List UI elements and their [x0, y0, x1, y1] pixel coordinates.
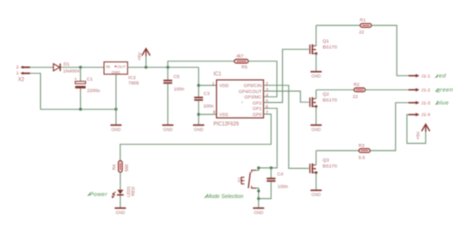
wire S1 bottom contact down: [256, 188, 258, 199]
svg-text:BS170: BS170: [323, 164, 338, 170]
capacitor C5 100n: [163, 67, 184, 124]
wire Q3 drain up to R3: [315, 151, 317, 165]
svg-text:R4: R4: [112, 164, 117, 170]
svg-text:Power: Power: [90, 192, 109, 198]
wire R4 to LED1: [119, 172, 121, 189]
svg-text:PIC12F629: PIC12F629: [214, 122, 240, 128]
wire GP2 pin5 to Q1 gate: [264, 49, 309, 102]
capacitor C3 100n: [194, 91, 214, 125]
node junction Q1 source-body: [315, 52, 318, 55]
wire R5 feed from C5 node: [168, 61, 235, 67]
node junction C4 top: [270, 166, 273, 169]
svg-text:C1: C1: [87, 77, 93, 82]
wire GP5 pin2 to Q3 gate: [264, 85, 309, 168]
svg-text:R5: R5: [242, 65, 248, 70]
svg-text:red: red: [437, 74, 447, 80]
ground symbol under C5: [162, 125, 173, 132]
svg-text:100n: 100n: [203, 104, 214, 109]
resistor R3 5.6: [316, 143, 370, 160]
LED LED1: [112, 185, 136, 197]
wire R3 to J1-3: [370, 103, 408, 151]
resistor R4 560: [112, 161, 129, 173]
transistor Q2 BS170: [310, 91, 337, 107]
svg-text:2200u: 2200u: [87, 88, 100, 93]
ground symbol under C3: [193, 125, 204, 132]
svg-text:J1-3: J1-3: [421, 100, 430, 105]
svg-text:GP4/COUT: GP4/COUT: [239, 89, 262, 94]
wire Q2 drain up to R2: [315, 90, 317, 99]
node junction VDD branch: [197, 84, 200, 87]
ground symbol under Q2: [311, 125, 322, 132]
svg-text:J1-4: J1-4: [421, 112, 430, 117]
svg-text:C3: C3: [204, 91, 210, 96]
wire Q1 source to gnd: [315, 54, 317, 71]
ground symbol under S1: [253, 208, 264, 215]
node junction Q3 source-body: [315, 171, 318, 174]
svg-text:IN: IN: [106, 64, 110, 69]
svg-text:BS170: BS170: [323, 45, 338, 51]
connector X2 pin 1: [16, 71, 30, 76]
wire bottom rail to C4: [259, 182, 272, 199]
wire Q2 source to gnd: [315, 106, 317, 124]
svg-text:100n: 100n: [174, 87, 185, 92]
svg-text:blue: blue: [437, 101, 450, 107]
svg-text:C4: C4: [277, 171, 283, 176]
svg-text:green: green: [437, 88, 454, 94]
wire LED1 to GND: [119, 196, 121, 208]
svg-text:VDD: VDD: [219, 83, 229, 88]
svg-text:5.6: 5.6: [359, 155, 366, 160]
node junction Q2 source-body: [315, 105, 318, 108]
node junction VSS branch: [197, 113, 200, 116]
ground symbol under Q1: [311, 72, 322, 79]
node junction S1 top: [257, 166, 260, 169]
node junction C5 top: [166, 66, 169, 69]
svg-text:VSS: VSS: [219, 112, 228, 117]
resistor R2 22: [316, 82, 365, 99]
svg-text:22: 22: [353, 94, 359, 99]
wire +5V rail corner down to VDD/C3: [198, 67, 200, 97]
svg-text:GND: GND: [311, 73, 321, 78]
svg-text:GP0: GP0: [253, 112, 263, 117]
node junction +5V stem: [145, 66, 148, 69]
svg-text:BS170: BS170: [323, 97, 338, 103]
svg-text:GP1: GP1: [253, 106, 263, 111]
svg-text:GND: GND: [163, 127, 173, 132]
wire Q3 source to gnd: [315, 173, 317, 190]
wire GP1 pin6 to mode selection rail: [259, 108, 278, 168]
svg-text:C5: C5: [174, 74, 180, 79]
wire Q1 drain up to R1: [315, 25, 317, 45]
wire R1 to J1-1: [371, 25, 408, 75]
svg-text:Q1: Q1: [323, 38, 330, 44]
svg-text:GND: GND: [254, 210, 264, 215]
svg-text:IC1: IC1: [214, 71, 222, 77]
svg-text:+: +: [74, 76, 77, 81]
connector J1 pin 4: [409, 112, 431, 117]
svg-text:+5V: +5V: [415, 130, 420, 139]
wire red tick: [436, 75, 439, 78]
wire S1 top contact to rail: [256, 168, 258, 170]
connector J1 pin 3: [409, 100, 431, 105]
wire VSS branch: [199, 113, 217, 115]
wire D1 cathode to IC2 IN: [61, 66, 104, 68]
svg-text:+5V: +5V: [137, 51, 142, 60]
node junction S1 bottom: [257, 190, 260, 193]
wire green tick: [436, 89, 439, 92]
wire GP4 pin3 to Q2 gate: [264, 91, 309, 102]
resistor R1 22: [316, 18, 371, 35]
connector J1 pin 1: [409, 73, 431, 78]
svg-text:Mode Selection: Mode Selection: [206, 194, 243, 200]
wire R5 to pin GP3/MC: [248, 61, 277, 97]
svg-text:GP2: GP2: [253, 100, 263, 105]
microcontroller IC1 PIC12F629: [214, 71, 264, 127]
svg-text:+: +: [241, 100, 244, 105]
wire IC2 OUT +5V rail: [128, 66, 199, 68]
svg-text:GP3/MC: GP3/MC: [244, 95, 262, 100]
svg-text:IC2: IC2: [128, 75, 136, 81]
svg-text:560: 560: [124, 164, 129, 172]
svg-text:R1: R1: [360, 18, 366, 23]
svg-text:GND: GND: [112, 69, 121, 74]
node junction gnd branch: [257, 197, 260, 200]
svg-text:7805: 7805: [128, 80, 139, 86]
capacitor C1 2200u: [74, 67, 100, 109]
svg-text:GND: GND: [194, 127, 204, 132]
wire GP0 pin7 to power LED: [120, 114, 271, 161]
svg-text:J1-1: J1-1: [421, 73, 430, 78]
node junction C1 top: [79, 66, 82, 69]
wire VDD branch: [199, 84, 217, 86]
wire blue tick: [436, 102, 439, 105]
wire J1-4 to +5V: [407, 115, 426, 144]
svg-text:GND: GND: [116, 210, 126, 215]
wire IC2 GND down: [115, 74, 117, 124]
ground symbol under LED1: [115, 208, 126, 215]
svg-text:GP5/CIN: GP5/CIN: [244, 83, 262, 88]
svg-text:1N4004: 1N4004: [63, 68, 80, 73]
wire R2 to J1-2: [365, 89, 408, 91]
resistor R5 4k7: [234, 53, 248, 69]
svg-text:RED: RED: [131, 187, 136, 196]
svg-text:J1-2: J1-2: [421, 87, 430, 92]
connector X2 pin 2: [16, 65, 30, 70]
ground symbol under Q3: [311, 190, 322, 197]
svg-text:4k7: 4k7: [236, 53, 244, 58]
svg-text:100n: 100n: [278, 184, 289, 189]
wire X2 pin2 to D1 anode: [30, 66, 53, 68]
svg-text:Q3: Q3: [323, 158, 330, 164]
svg-text:S1: S1: [237, 177, 242, 183]
connector J1 pin 2: [409, 87, 431, 92]
supply +5V symbol near J1: [415, 124, 429, 139]
svg-text:Q2: Q2: [323, 91, 330, 97]
capacitor C4 100n: [267, 168, 289, 189]
svg-text:X2: X2: [18, 77, 24, 83]
svg-text:GND: GND: [311, 127, 321, 132]
ground symbol under IC2: [110, 125, 121, 132]
wire gnd drop: [258, 199, 260, 208]
svg-text:GND: GND: [111, 127, 121, 132]
diode D1: [53, 62, 79, 74]
svg-text:GND: GND: [311, 192, 321, 197]
voltage regulator IC2 7805: [104, 62, 139, 87]
transistor Q3 BS170: [310, 158, 337, 174]
svg-text:D1: D1: [64, 62, 70, 67]
svg-text:OUT: OUT: [117, 64, 126, 69]
svg-text:R3: R3: [359, 143, 365, 148]
wire X2 pin1 down and ground bus: [30, 73, 116, 109]
supply +5V symbol near IC2: [137, 49, 150, 68]
svg-text:22: 22: [359, 30, 365, 35]
switch S1 mode button: [237, 170, 257, 188]
svg-text:R2: R2: [354, 82, 360, 87]
transistor Q1 BS170: [310, 38, 337, 54]
node junction C1 bottom on bus: [79, 108, 82, 111]
node junction 7805 gnd on bus: [115, 108, 118, 111]
